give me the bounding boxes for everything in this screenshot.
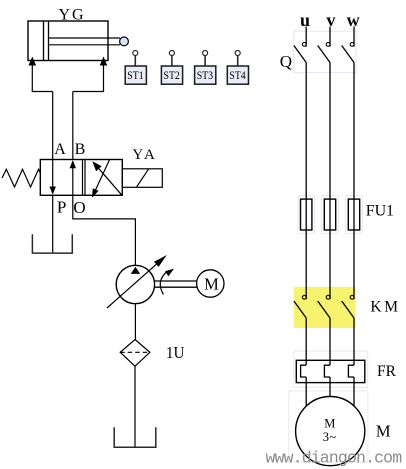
wire w: FR to motor — [353, 377, 355, 407]
selection box motor M — [289, 391, 368, 462]
svg-text:M: M — [324, 417, 335, 431]
svg-text:KM: KM — [370, 299, 398, 316]
wire v: FR to motor — [329, 377, 331, 397]
svg-text:www.diangon.com: www.diangon.com — [266, 448, 403, 467]
cylinder YG body — [28, 21, 108, 61]
wire P to tank — [52, 195, 54, 252]
filter 1U diamond — [120, 340, 150, 367]
limit switch ST2 — [161, 51, 182, 85]
wire v: KM to FR — [329, 318, 331, 365]
svg-text:YA: YA — [132, 147, 155, 163]
svg-text:ST2: ST2 — [164, 70, 181, 82]
svg-text:Q: Q — [280, 52, 292, 71]
wire A port line — [52, 92, 54, 160]
wire B port line — [72, 92, 74, 160]
wire cylinder left port down — [31, 61, 33, 92]
svg-text:1U: 1U — [166, 343, 185, 362]
port arrow left (into cylinder) — [29, 57, 37, 66]
filter dashed line — [120, 351, 150, 353]
svg-text:FU1: FU1 — [366, 203, 394, 220]
thermal relay FR box — [296, 360, 365, 382]
svg-text:ST3: ST3 — [197, 70, 214, 82]
switch Q pole u — [294, 27, 306, 63]
wire u: fuse to KM — [305, 230, 307, 299]
motor M circle — [296, 397, 365, 466]
FR heater element u — [301, 365, 307, 377]
svg-text:B: B — [75, 141, 86, 158]
selection box Q — [294, 31, 356, 73]
pump flow triangle — [131, 267, 140, 274]
contactor KM pole u — [294, 295, 306, 318]
pump circle — [116, 265, 154, 303]
svg-text:P: P — [57, 198, 66, 217]
wire v: Q to fuse — [329, 63, 331, 231]
wire w: fuse to KM — [353, 230, 355, 299]
switch Q pole v — [318, 27, 330, 63]
switch Q pole w — [342, 27, 354, 63]
wire filter to tank — [134, 366, 136, 446]
cylinder rod end circle — [120, 37, 129, 46]
valve left square down arrow — [52, 160, 54, 189]
fuse FU1 pole v — [324, 199, 335, 230]
valve right square diagonal B (with down arrowhead) — [96, 160, 110, 190]
pump variable arrow diagonal — [107, 264, 156, 308]
port arrow right (into cylinder) — [100, 57, 108, 66]
tank 2 — [114, 427, 156, 447]
FR heater element v — [324, 365, 330, 377]
valve spring — [2, 169, 40, 187]
wire u: FR to motor — [305, 377, 307, 407]
valve right square diagonal A (with up arrowhead) — [99, 169, 122, 196]
svg-text:u: u — [300, 10, 310, 30]
svg-text:ST4: ST4 — [229, 70, 246, 82]
wire w: KM to FR — [353, 318, 355, 365]
cylinder rod — [49, 37, 121, 39]
wire horizontal to A line — [32, 91, 53, 93]
valve body — [40, 160, 122, 196]
svg-text:3~: 3~ — [323, 430, 337, 444]
svg-text:w: w — [347, 10, 360, 30]
selection box FU1-3 — [346, 196, 363, 234]
tank 1 — [32, 234, 72, 253]
pump rotation arrow — [160, 272, 167, 295]
svg-text:O: O — [73, 198, 85, 217]
limit switch ST4 — [227, 51, 248, 85]
shaft lines — [155, 280, 197, 282]
wire u: Q to fuse — [305, 63, 307, 231]
selection box FU1-2 — [322, 196, 339, 234]
svg-text:M: M — [204, 275, 219, 294]
svg-text:M: M — [376, 421, 391, 440]
fuse FU1 pole u — [301, 199, 312, 230]
wire w: Q to fuse — [353, 63, 355, 231]
svg-text:FR: FR — [377, 363, 397, 380]
FR heater element w — [348, 365, 354, 377]
svg-text:A: A — [54, 141, 66, 158]
wire v: fuse to KM — [329, 230, 331, 299]
limit switch ST3 — [195, 51, 216, 85]
wire O to pump — [73, 195, 136, 265]
selection box FR — [294, 351, 368, 388]
limit switch ST1 — [125, 51, 146, 85]
contactor KM pole w — [342, 295, 354, 318]
solenoid YA diagonal — [136, 169, 148, 188]
contactor KM pole v — [318, 295, 330, 318]
motor M circle (drive motor) — [197, 270, 224, 297]
wire u: KM to FR — [305, 318, 307, 365]
valve divider lines — [82, 160, 84, 196]
cylinder piston — [43, 21, 45, 61]
wire cylinder right port down — [103, 61, 105, 92]
solenoid YA box — [122, 169, 162, 188]
svg-text:ST1: ST1 — [127, 70, 144, 82]
selection box FU1-1 — [298, 196, 315, 234]
fuse FU1 pole w — [348, 199, 359, 230]
wire pump to filter — [134, 304, 136, 340]
svg-text:v: v — [326, 10, 335, 30]
highlight box KM (yellow) — [294, 287, 356, 328]
valve left square up arrow — [72, 167, 74, 195]
wire horizontal to B line — [73, 91, 104, 93]
